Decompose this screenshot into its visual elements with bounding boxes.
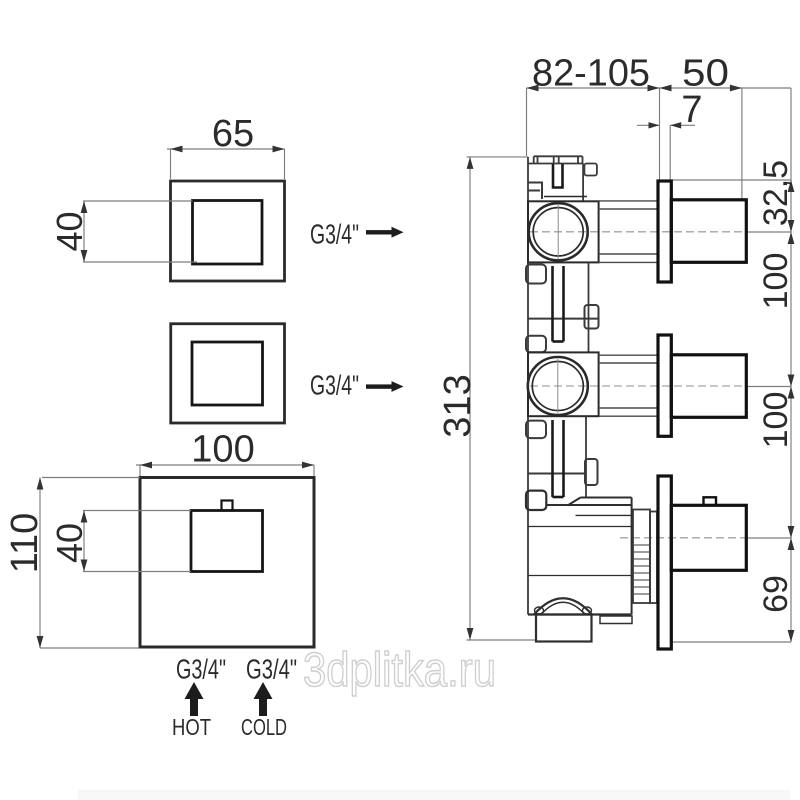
svg-text:32,5: 32,5 — [757, 160, 795, 226]
svg-text:3dplitka.ru: 3dplitka.ru — [303, 644, 496, 697]
svg-text:100: 100 — [757, 392, 795, 449]
svg-text:40: 40 — [49, 523, 90, 563]
svg-text:100: 100 — [757, 253, 795, 310]
svg-text:40: 40 — [49, 211, 90, 251]
svg-text:G3/4": G3/4" — [310, 370, 359, 401]
svg-text:G3/4": G3/4" — [310, 219, 359, 250]
svg-text:HOT: HOT — [172, 714, 211, 740]
svg-text:313: 313 — [437, 374, 479, 437]
svg-text:65: 65 — [212, 113, 254, 155]
svg-text:COLD: COLD — [241, 714, 287, 740]
svg-text:110: 110 — [4, 513, 46, 574]
svg-text:G3/4": G3/4" — [246, 654, 297, 685]
svg-text:G3/4": G3/4" — [176, 654, 226, 685]
svg-text:100: 100 — [191, 429, 254, 471]
svg-text:82-105: 82-105 — [532, 53, 650, 95]
svg-text:7: 7 — [681, 89, 702, 131]
svg-text:69: 69 — [757, 575, 795, 613]
